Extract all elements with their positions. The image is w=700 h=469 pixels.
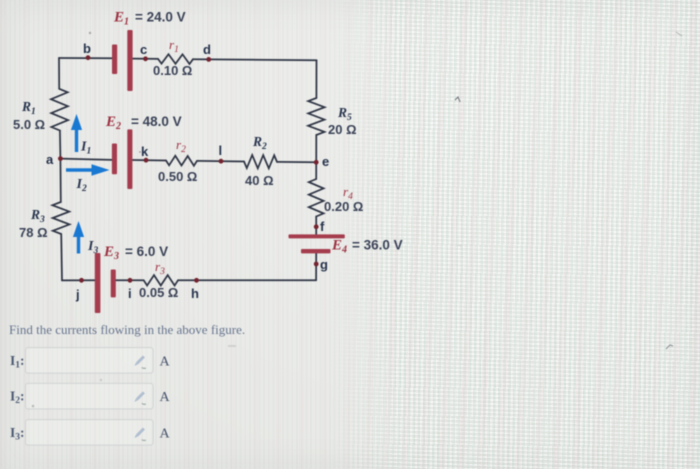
svg-text:f: f xyxy=(320,219,325,234)
svg-text:I2:: I2: xyxy=(10,389,25,407)
svg-text:E3: E3 xyxy=(103,244,119,262)
svg-text:j: j xyxy=(75,287,80,302)
svg-text:E2: E2 xyxy=(105,114,121,132)
svg-text:e: e xyxy=(322,154,329,169)
svg-text:0.05 Ω: 0.05 Ω xyxy=(139,285,178,300)
svg-text:r3: r3 xyxy=(155,259,165,277)
svg-text:E4: E4 xyxy=(331,238,347,256)
svg-text:= 48.0 V: = 48.0 V xyxy=(131,114,182,129)
svg-text:R3: R3 xyxy=(30,207,45,225)
svg-text:d: d xyxy=(203,42,211,57)
svg-text:i: i xyxy=(128,286,132,301)
svg-text:A: A xyxy=(160,426,171,441)
svg-text:r1: r1 xyxy=(169,37,179,55)
svg-text:5.0 Ω: 5.0 Ω xyxy=(13,117,45,132)
svg-text:20 Ω: 20 Ω xyxy=(328,122,357,137)
svg-text:R5: R5 xyxy=(337,105,352,123)
svg-text:I1: I1 xyxy=(80,140,91,157)
svg-text:40 Ω: 40 Ω xyxy=(245,173,274,188)
svg-text:I1:: I1: xyxy=(10,353,25,371)
svg-text:E1: E1 xyxy=(113,10,129,28)
svg-text:k: k xyxy=(141,144,149,159)
svg-text:A: A xyxy=(160,390,171,405)
svg-text:I2: I2 xyxy=(76,177,87,194)
svg-text:h: h xyxy=(191,286,199,301)
svg-text:A: A xyxy=(160,354,171,369)
svg-text:r2: r2 xyxy=(176,137,186,155)
svg-text:0.10 Ω: 0.10 Ω xyxy=(153,63,192,78)
svg-text:a: a xyxy=(46,152,54,167)
svg-text:78 Ω: 78 Ω xyxy=(19,225,48,240)
svg-text:I3:: I3: xyxy=(10,425,25,443)
svg-text:I3: I3 xyxy=(87,239,98,256)
svg-text:= 36.0 V: = 36.0 V xyxy=(352,238,403,253)
svg-text:g: g xyxy=(320,257,328,272)
svg-text:b: b xyxy=(83,41,91,56)
svg-text:c: c xyxy=(140,42,147,57)
svg-text:R1: R1 xyxy=(21,99,36,117)
svg-text:Find the currents flowing in t: Find the currents flowing in the above f… xyxy=(9,322,245,337)
svg-text:0.20 Ω: 0.20 Ω xyxy=(324,199,363,214)
svg-text:l: l xyxy=(219,143,223,158)
svg-text:0.50 Ω: 0.50 Ω xyxy=(158,169,197,184)
svg-text:= 6.0 V: = 6.0 V xyxy=(125,244,168,259)
svg-text:= 24.0 V: = 24.0 V xyxy=(135,10,186,25)
svg-text:R2: R2 xyxy=(252,134,267,152)
